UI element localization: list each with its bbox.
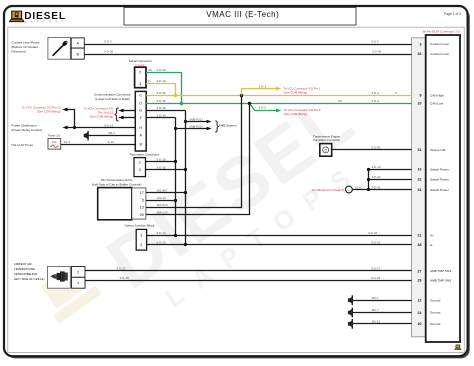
node bus A option junction: [174, 234, 177, 237]
svg-text:26: 26: [418, 52, 422, 56]
bus A vertical wire: [175, 118, 177, 236]
watermark diesel laptops: [29, 77, 385, 366]
svg-text:3-D-22: 3-D-22: [372, 175, 382, 179]
node HD3 bus A junction: [174, 199, 177, 202]
node yellow junction: [174, 94, 177, 97]
svg-text:Coolant Level: Coolant Level: [430, 42, 449, 46]
option junction block J5: [136, 229, 146, 250]
wire branch to VCU pin 13: [67, 110, 75, 128]
coolant probe pin B: [71, 48, 84, 59]
wire 3-D-3 coolant A to ECM pin 3: [84, 44, 411, 46]
svg-text:VMAC III (E-Tech): VMAC III (E-Tech): [206, 10, 279, 19]
svg-text:YL: YL: [395, 91, 399, 95]
svg-text:(See COM Wiring): (See COM Wiring): [284, 112, 308, 116]
svg-text:3-D-46: 3-D-46: [157, 99, 167, 103]
svg-text:22: 22: [418, 178, 422, 182]
svg-text:Serial Connector: Serial Connector: [129, 59, 152, 63]
speaker symbol: [84, 131, 89, 141]
svg-text:13: 13: [140, 206, 144, 210]
svg-text:(2nd Break From Page 3): (2nd Break From Page 3): [312, 188, 345, 192]
svg-text:(See COM Wiring): (See COM Wiring): [90, 115, 114, 119]
svg-text:YL: YL: [148, 79, 152, 83]
svg-text:AMB TMP SNS: AMB TMP SNS: [430, 269, 451, 273]
svg-text:3-D-1: 3-D-1: [372, 91, 380, 95]
svg-text:10-4: 10-4: [64, 140, 70, 144]
svg-text:3-D-30: 3-D-30: [371, 145, 381, 149]
svg-text:21: 21: [418, 234, 422, 238]
svg-text:3-D-10: 3-D-10: [372, 165, 382, 169]
svg-text:29: 29: [418, 279, 422, 283]
wire A-10 fuse to comm pin B: [61, 144, 136, 146]
svg-text:3-D-3: 3-D-3: [371, 40, 379, 44]
ECM pin numbers and labels: [418, 42, 452, 326]
wire BK-11 ground to ECM pin 40: [353, 323, 412, 325]
wire 3-D-15 pyro pin 3 to bus B: [146, 169, 186, 171]
svg-text:(See COM Wiring): (See COM Wiring): [284, 90, 308, 94]
svg-text:Fuse 10: Fuse 10: [48, 134, 59, 138]
wire 3-D-29 ambient pin 1 to ECM pin 29: [85, 280, 412, 282]
ground symbol 3: [348, 319, 353, 329]
svg-text:A2-A: A2-A: [355, 186, 361, 190]
wire 3-D-27 ambient pin 2 to ECM pin 27: [85, 270, 412, 272]
svg-text:3-D-1A: 3-D-1A: [157, 79, 167, 83]
wire 3-D-34 comm pin F to bus A: [146, 117, 175, 119]
svg-text:3-D-2: 3-D-2: [259, 105, 267, 109]
svg-text:(Bottom Of Coolant: (Bottom Of Coolant: [12, 45, 39, 49]
svg-text:3-D-29: 3-D-29: [371, 276, 381, 280]
svg-text:3-D-3: 3-D-3: [104, 40, 112, 44]
svg-text:D: D: [139, 102, 142, 106]
svg-text:3-D-41: 3-D-41: [372, 186, 382, 190]
wire 192-967 HD pin 17 to bus B: [146, 192, 186, 194]
wire 3-D-34 option pin 3 to ECM pin 21: [147, 235, 412, 237]
svg-text:3-D-27: 3-D-27: [371, 267, 381, 271]
diesel laptops logo: [9, 11, 65, 24]
node green tap junction: [248, 102, 251, 105]
node switch power junction 10: [367, 168, 370, 171]
svg-text:192-967: 192-967: [157, 189, 168, 193]
svg-text:3-D-35: 3-D-35: [157, 106, 167, 110]
coolant probe pin A: [71, 38, 84, 48]
wire AMB-PO13: [186, 121, 208, 123]
wire 3-D-33 option pin 4 to ECM pin 38: [147, 244, 412, 246]
coolant level probe label: [12, 40, 40, 53]
svg-text:AMB-PO13: AMB-PO13: [189, 117, 203, 121]
svg-text:10: 10: [418, 167, 422, 171]
svg-text:LEFT SIDE OF GRILLE): LEFT SIDE OF GRILLE): [14, 277, 44, 281]
HD transmission ECU U2: [98, 188, 132, 220]
svg-text:Torque LIM: Torque LIM: [430, 148, 446, 152]
svg-text:3-D-33: 3-D-33: [371, 240, 381, 244]
pyrometer connector J4: [134, 158, 146, 177]
wire 3-D-30 translator to ECM pin 31: [332, 149, 412, 151]
red note to VCU connector pins 14-15: [84, 107, 114, 119]
svg-text:G: G: [139, 108, 142, 112]
svg-text:C: C: [139, 93, 142, 97]
ambient sensor pin 2: [72, 267, 86, 278]
svg-text:A+: A+: [430, 234, 434, 238]
svg-text:(Left Side of Cab in Shifter C: (Left Side of Cab in Shifter Console): [92, 182, 142, 186]
svg-text:Option Junction Block: Option Junction Block: [125, 224, 155, 228]
svg-text:3-D-13: 3-D-13: [104, 123, 114, 127]
svg-text:41: 41: [418, 188, 422, 192]
wire 3-D-35 comm pin G to bus B: [146, 110, 185, 112]
fuse F10: [48, 139, 61, 150]
node switch power junction 41: [367, 188, 370, 191]
node pyro2 bus A junction: [174, 160, 177, 163]
svg-text:40: 40: [418, 322, 422, 326]
svg-text:3-D-34: 3-D-34: [157, 231, 167, 235]
svg-text:Coolant Level: Coolant Level: [430, 52, 449, 56]
svg-text:BK-1: BK-1: [372, 296, 379, 300]
svg-text:3-D-36: 3-D-36: [104, 50, 114, 54]
svg-text:TEMPERATURE: TEMPERATURE: [14, 267, 35, 271]
svg-text:3: 3: [139, 168, 141, 172]
svg-text:Ground: Ground: [430, 311, 441, 315]
ECM pin column: [412, 38, 426, 337]
svg-text:Page 1 of 3: Page 1 of 3: [444, 12, 461, 16]
wire 3-D-13 comm pin H to power distribution: [67, 127, 135, 129]
ground symbol 2: [348, 308, 353, 318]
svg-text:(Power Relay Control): (Power Relay Control): [12, 128, 42, 132]
svg-text:SENSOR(BEHIND: SENSOR(BEHIND: [14, 272, 37, 276]
red note to VCU pin 1: [284, 86, 321, 94]
svg-text:BK-11: BK-11: [372, 320, 380, 324]
svg-text:3-D-15: 3-D-15: [157, 165, 167, 169]
svg-text:3-D-29: 3-D-29: [120, 276, 130, 280]
svg-text:20: 20: [140, 213, 144, 217]
svg-text:B8-1: B8-1: [109, 131, 116, 135]
node bus A AMB tap: [174, 127, 177, 130]
wire BK-1 ground to ECM pin 12: [353, 300, 412, 302]
node green junction: [180, 102, 183, 105]
svg-text:134-10: 134-10: [157, 196, 167, 200]
svg-text:3: 3: [139, 82, 141, 86]
wire 3-D-36 coolant B to ECM pin 26: [84, 54, 411, 56]
svg-text:38: 38: [418, 243, 422, 247]
title box: [124, 8, 356, 26]
svg-text:3-D-2A: 3-D-2A: [157, 68, 167, 72]
serial connector J2: [135, 67, 146, 88]
svg-text:Translator Connector: Translator Connector: [313, 138, 340, 142]
svg-text:4: 4: [140, 243, 142, 247]
svg-text:3-D-18: 3-D-18: [157, 158, 167, 162]
svg-text:(Lower Left Side of Dash): (Lower Left Side of Dash): [95, 97, 130, 101]
bottom right mini logo: [454, 345, 461, 350]
svg-text:Switch Power: Switch Power: [430, 167, 449, 171]
svg-text:Pyrometer Connector: Pyrometer Connector: [130, 152, 159, 156]
ECM label box U1: [426, 35, 460, 342]
wire B8-1 comm pin A to speaker: [88, 135, 135, 137]
wire AMB-PO14: [176, 128, 208, 130]
svg-text:Switch Power: Switch Power: [430, 178, 449, 182]
svg-text:184-910: 184-910: [157, 203, 168, 207]
transmission engine translator J6: [320, 144, 332, 157]
red note to VCU connector pin 13: [22, 106, 61, 114]
wire 134-10 HD pin 3 to bus A: [146, 200, 176, 202]
svg-text:12: 12: [418, 299, 422, 303]
bus B vertical wire: [185, 111, 187, 245]
ambient sensor pin 1: [72, 277, 86, 288]
svg-text:10A: 10A: [52, 140, 57, 144]
connector circle A2: [346, 186, 353, 193]
node pyro3 bus B junction: [184, 168, 187, 171]
svg-text:3-D-45: 3-D-45: [157, 91, 167, 95]
node switch power junction 22: [367, 178, 370, 181]
svg-text:31: 31: [418, 148, 422, 152]
node bus B option junction: [184, 243, 187, 246]
svg-text:3-D-1: 3-D-1: [259, 84, 267, 88]
svg-text:BK-7: BK-7: [372, 308, 379, 312]
communication connector J3: [135, 91, 146, 151]
wire 3-D-18 pyro pin 2 to bus A: [146, 161, 176, 163]
svg-text:GN: GN: [148, 68, 152, 72]
node H branch junction: [73, 126, 76, 129]
ambient sensor icon: [50, 271, 68, 281]
power distribution label: [12, 124, 42, 132]
svg-text:AMB System: AMB System: [219, 124, 237, 128]
svg-text:3: 3: [420, 42, 422, 46]
svg-text:H: H: [139, 126, 142, 130]
svg-text:Power Distribution: Power Distribution: [12, 124, 37, 128]
coolant level probe icon box: [48, 37, 70, 59]
svg-text:Switch Power: Switch Power: [430, 188, 449, 192]
svg-text:Ground: Ground: [430, 322, 441, 326]
wire 3-D-45 CAN high yellow main: [146, 95, 411, 97]
svg-text:2: 2: [139, 160, 141, 164]
svg-text:CAN Low: CAN Low: [430, 102, 444, 106]
red note to VCU pin 2: [284, 108, 321, 116]
svg-text:8: 8: [420, 94, 422, 98]
svg-text:Hot at All Times: Hot at All Times: [12, 143, 34, 147]
svg-text:3-D-34: 3-D-34: [368, 231, 378, 235]
svg-text:3: 3: [142, 199, 144, 203]
wire BK-7 ground to ECM pin 24: [353, 312, 412, 314]
svg-text:2: 2: [77, 270, 79, 274]
ground symbol 1: [348, 295, 353, 305]
wire green branch to VCU pin 2: [250, 104, 277, 111]
wire 3-D-46 CAN low green main: [146, 103, 411, 105]
svg-text:A-: A-: [430, 243, 433, 247]
wire 184-910 HD pin 13 to CAN high: [146, 96, 242, 208]
wire YL 3-D-1A serial pin 3 yellow: [146, 84, 176, 96]
svg-text:3-D-2: 3-D-2: [372, 99, 380, 103]
wire 3-D-10 to ECM pin 10: [369, 169, 412, 171]
svg-text:1: 1: [77, 281, 79, 285]
svg-text:AMBIENT AIR: AMBIENT AIR: [14, 262, 32, 266]
svg-text:CAN High: CAN High: [430, 93, 444, 97]
svg-text:184-109: 184-109: [157, 211, 168, 215]
wire comm pin F to VCU arrow: [123, 117, 135, 119]
wire A2-A 3-D-41 to ECM pin 41: [352, 189, 411, 191]
wire yellow branch to VCU pin 1: [242, 89, 277, 96]
svg-text:Communication Connector: Communication Connector: [94, 93, 131, 97]
node HD17 bus B junction: [184, 191, 187, 194]
probe icon: [53, 40, 69, 56]
svg-text:{: {: [114, 106, 119, 122]
wire GN 3-D-2A serial pin 2 green: [146, 73, 182, 104]
svg-text:(See COM Wiring): (See COM Wiring): [37, 110, 61, 114]
svg-text:3-D-33: 3-D-33: [157, 240, 167, 244]
svg-text:38-Pin ECM Connector 3-D: 38-Pin ECM Connector 3-D: [422, 30, 460, 34]
svg-text:20: 20: [418, 102, 422, 106]
switch power bus vertical wire: [368, 170, 370, 190]
wire 3-D-22 to ECM pin 22: [369, 179, 412, 181]
node yellow tap junction: [240, 94, 243, 97]
wire 184-109 HD pin 20 to CAN low: [146, 104, 250, 215]
svg-text:17: 17: [140, 191, 144, 195]
svg-text:AMB-PO14: AMB-PO14: [189, 125, 203, 129]
node bus B AMB tap: [184, 120, 187, 123]
svg-text:27: 27: [418, 269, 422, 273]
ambient sensor icon box: [48, 266, 71, 288]
svg-text:Coolant Level Probe: Coolant Level Probe: [12, 40, 40, 44]
svg-text:3-D-27: 3-D-27: [117, 267, 127, 271]
svg-text:2: 2: [139, 70, 141, 74]
ambient air temperature sensor label: [14, 262, 44, 281]
svg-text:GN: GN: [338, 99, 342, 103]
wire comm pin G to VCU arrow: [123, 110, 135, 112]
svg-text:A-10: A-10: [108, 140, 115, 144]
svg-text:Reservoir): Reservoir): [12, 49, 26, 53]
svg-text:Ground: Ground: [430, 298, 441, 302]
svg-text:AMB TMP SNS: AMB TMP SNS: [430, 279, 451, 283]
svg-text:3: 3: [140, 234, 142, 238]
svg-text:3-D-36: 3-D-36: [372, 50, 382, 54]
HD transmission ECU pin column: [132, 188, 146, 219]
svg-text:24: 24: [418, 311, 422, 315]
svg-text:3-D-34: 3-D-34: [157, 113, 167, 117]
